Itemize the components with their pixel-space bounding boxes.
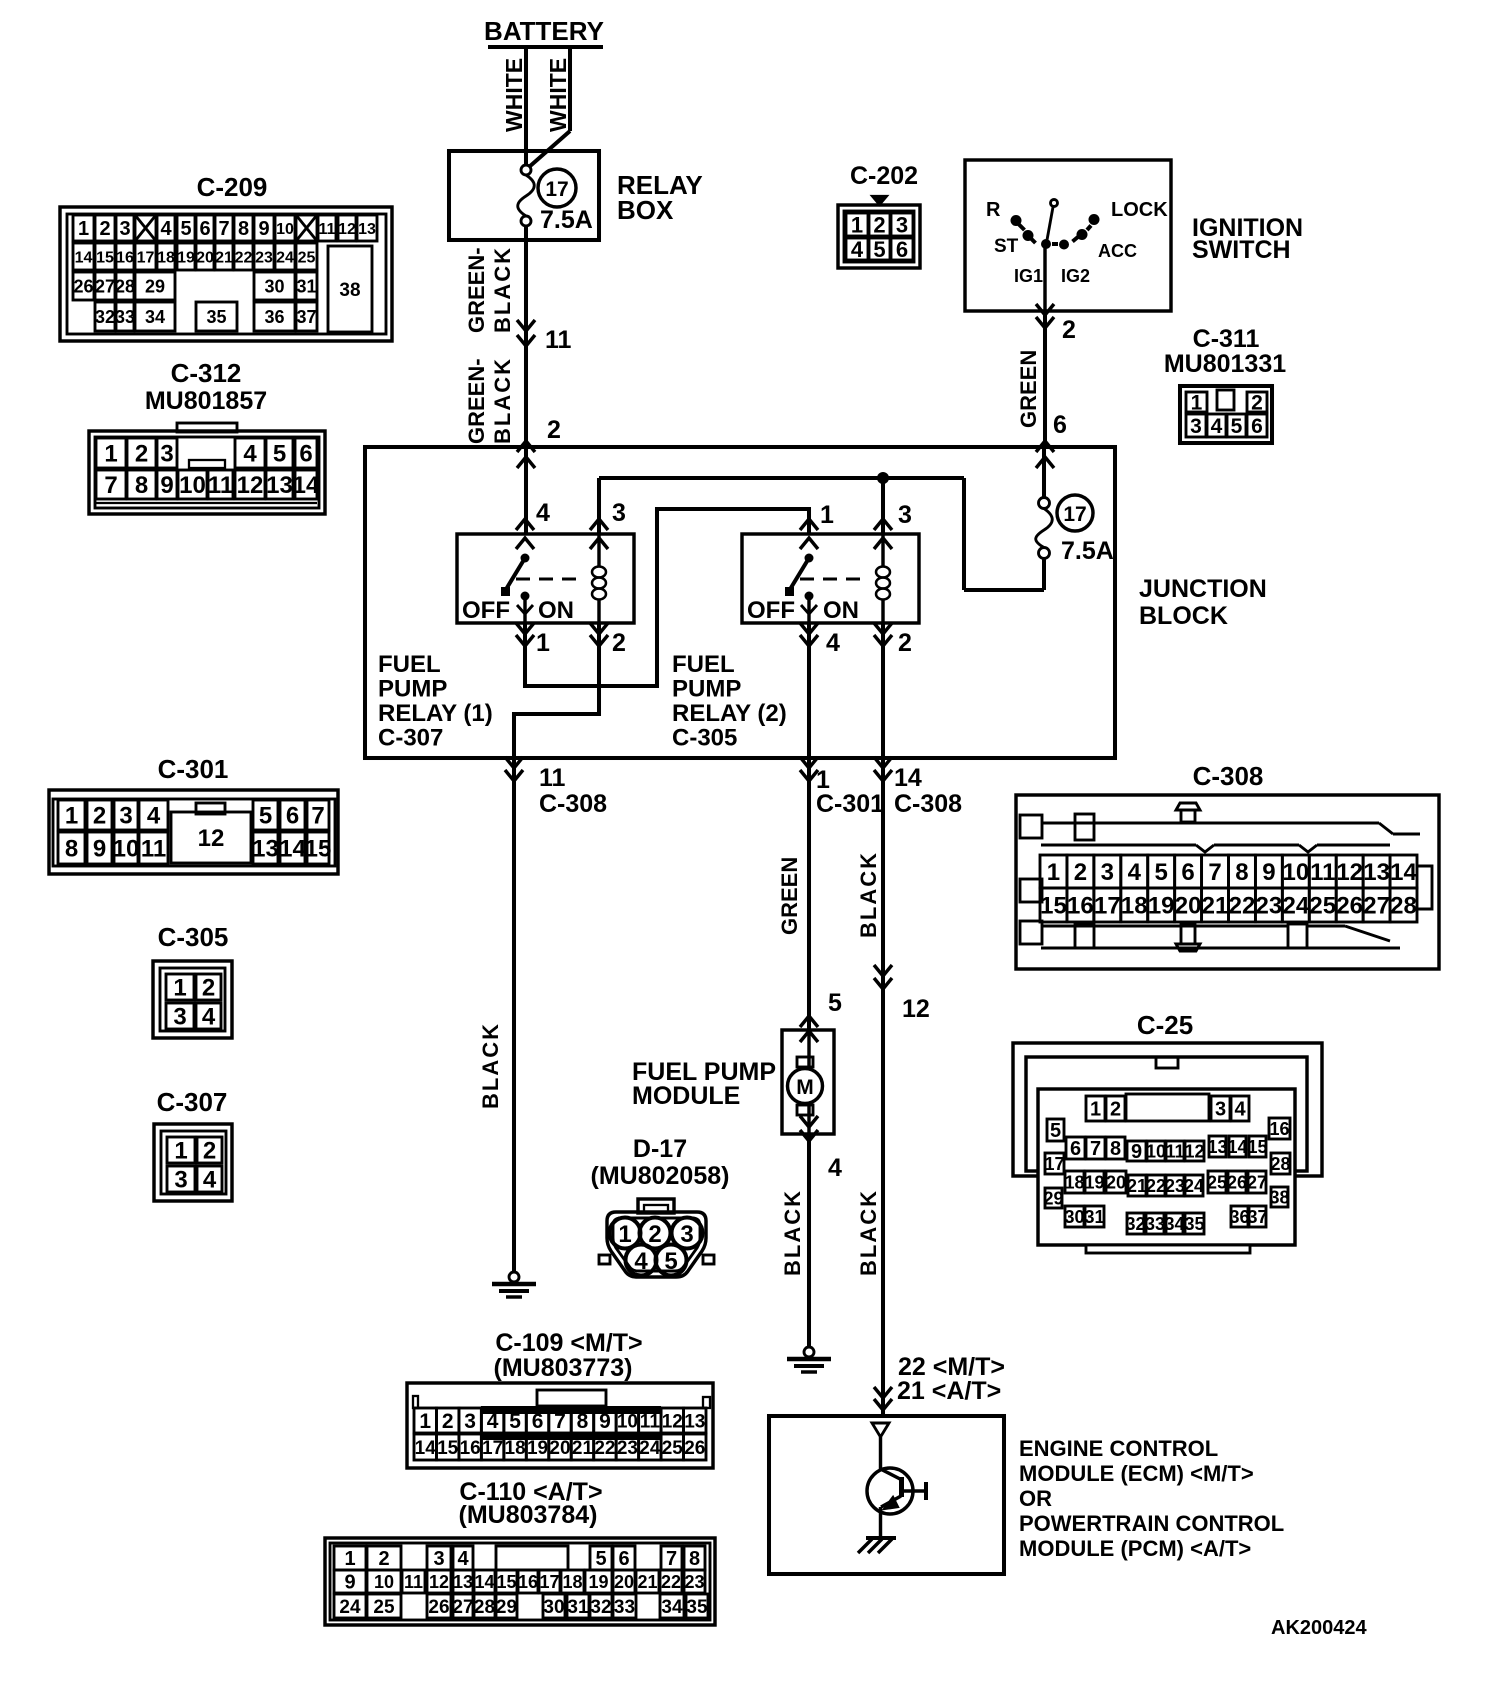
svg-text:8: 8 (689, 1548, 700, 1570)
svg-text:R: R (986, 199, 1001, 221)
svg-text:12: 12 (237, 472, 264, 499)
svg-text:12: 12 (338, 221, 356, 238)
svg-text:2: 2 (378, 1548, 389, 1570)
svg-text:3: 3 (1101, 859, 1114, 886)
svg-text:19: 19 (1084, 1172, 1104, 1192)
svg-text:31: 31 (567, 1597, 589, 1618)
svg-text:2: 2 (202, 975, 215, 1002)
svg-text:7: 7 (218, 218, 229, 240)
svg-text:5: 5 (259, 803, 272, 830)
svg-text:18: 18 (157, 249, 175, 266)
svg-text:4: 4 (457, 1548, 469, 1570)
svg-text:3: 3 (896, 212, 908, 237)
svg-text:13: 13 (266, 472, 293, 499)
svg-text:3: 3 (173, 1004, 186, 1031)
svg-text:C-307: C-307 (157, 1087, 228, 1117)
svg-text:35: 35 (1184, 1214, 1204, 1234)
svg-text:4: 4 (243, 441, 257, 468)
svg-text:FUEL: FUEL (378, 651, 441, 678)
svg-text:13: 13 (1207, 1137, 1227, 1157)
svg-text:8: 8 (1110, 1138, 1121, 1160)
svg-text:4: 4 (487, 1410, 499, 1433)
svg-text:MODULE (PCM) <A/T>: MODULE (PCM) <A/T> (1019, 1536, 1251, 1561)
svg-text:12: 12 (662, 1411, 683, 1432)
svg-text:C-109 <M/T>: C-109 <M/T> (495, 1329, 642, 1357)
svg-text:30: 30 (543, 1597, 564, 1618)
svg-text:3: 3 (612, 499, 626, 527)
svg-text:11: 11 (640, 1411, 661, 1432)
svg-text:18: 18 (1064, 1172, 1084, 1192)
svg-text:BLACK: BLACK (780, 1189, 805, 1276)
svg-text:12: 12 (429, 1572, 449, 1592)
svg-text:FUEL: FUEL (672, 651, 735, 678)
svg-text:29: 29 (145, 276, 165, 296)
svg-text:1: 1 (104, 441, 117, 468)
svg-text:4: 4 (147, 803, 161, 830)
svg-text:1: 1 (173, 975, 186, 1002)
svg-text:JUNCTION: JUNCTION (1139, 575, 1267, 603)
svg-text:C-308: C-308 (1193, 761, 1264, 791)
svg-text:25: 25 (662, 1438, 684, 1459)
svg-text:2: 2 (99, 218, 110, 240)
svg-text:35: 35 (206, 307, 226, 327)
svg-text:7: 7 (666, 1548, 677, 1570)
svg-text:7: 7 (1090, 1138, 1101, 1160)
svg-text:37: 37 (1247, 1207, 1267, 1227)
svg-text:9: 9 (1131, 1141, 1142, 1163)
svg-text:RELAY (2): RELAY (2) (672, 700, 787, 727)
svg-text:9: 9 (160, 472, 173, 499)
svg-text:MODULE: MODULE (632, 1082, 740, 1110)
svg-text:POWERTRAIN CONTROL: POWERTRAIN CONTROL (1019, 1511, 1284, 1536)
svg-text:22: 22 (1229, 893, 1256, 920)
svg-text:C-305: C-305 (158, 922, 229, 952)
svg-text:10: 10 (374, 1572, 394, 1592)
svg-text:3: 3 (1190, 415, 1202, 438)
svg-text:13: 13 (358, 221, 376, 238)
svg-text:BLACK: BLACK (856, 1189, 881, 1276)
svg-text:2: 2 (898, 629, 912, 657)
svg-text:20: 20 (1175, 893, 1202, 920)
svg-text:4: 4 (202, 1004, 216, 1031)
svg-text:11: 11 (1310, 859, 1335, 886)
svg-text:38: 38 (339, 280, 360, 301)
svg-text:28: 28 (1270, 1154, 1290, 1174)
svg-text:6: 6 (896, 237, 908, 262)
svg-text:IG2: IG2 (1061, 266, 1090, 286)
svg-text:C-311: C-311 (1193, 325, 1260, 353)
svg-text:14: 14 (1227, 1137, 1247, 1157)
svg-text:M: M (796, 1076, 814, 1099)
svg-text:27: 27 (1363, 893, 1390, 920)
svg-text:ON: ON (538, 597, 574, 624)
svg-text:17: 17 (1044, 1154, 1064, 1174)
svg-text:32: 32 (95, 307, 115, 327)
svg-text:8: 8 (65, 836, 78, 863)
svg-text:4: 4 (1234, 1099, 1246, 1121)
svg-text:4: 4 (160, 218, 172, 240)
svg-text:ACC: ACC (1098, 241, 1137, 261)
svg-text:5: 5 (1050, 1120, 1061, 1142)
svg-text:C-308: C-308 (894, 790, 962, 818)
svg-text:22: 22 (235, 249, 253, 266)
svg-text:24: 24 (639, 1438, 661, 1459)
svg-text:4: 4 (826, 629, 840, 657)
svg-text:16: 16 (518, 1572, 538, 1592)
svg-text:1: 1 (344, 1548, 355, 1570)
svg-text:16: 16 (1269, 1119, 1289, 1139)
svg-text:3: 3 (174, 1167, 187, 1194)
svg-text:32: 32 (590, 1597, 611, 1618)
svg-text:GREEN: GREEN (777, 857, 802, 935)
svg-text:15: 15 (96, 249, 114, 266)
svg-text:23: 23 (684, 1572, 704, 1592)
svg-text:2: 2 (1110, 1099, 1121, 1121)
svg-text:35: 35 (686, 1597, 708, 1618)
svg-text:26: 26 (684, 1438, 705, 1459)
svg-text:8: 8 (577, 1410, 589, 1433)
svg-text:C-305: C-305 (672, 725, 737, 752)
svg-text:8: 8 (135, 472, 148, 499)
svg-text:17: 17 (137, 249, 155, 266)
svg-text:24: 24 (276, 249, 294, 266)
svg-text:21 <A/T>: 21 <A/T> (897, 1377, 1001, 1405)
svg-text:4: 4 (536, 499, 550, 527)
svg-text:1: 1 (78, 218, 89, 240)
svg-text:2: 2 (1251, 392, 1263, 415)
svg-text:14: 14 (415, 1438, 437, 1459)
svg-text:3: 3 (680, 1221, 693, 1248)
svg-text:19: 19 (588, 1572, 608, 1592)
svg-text:12: 12 (1184, 1141, 1204, 1161)
svg-text:4: 4 (828, 1154, 842, 1182)
svg-text:ST: ST (994, 236, 1019, 257)
svg-text:SWITCH: SWITCH (1192, 236, 1291, 264)
svg-text:D-17: D-17 (633, 1135, 687, 1163)
svg-text:6: 6 (299, 441, 312, 468)
svg-text:ENGINE CONTROL: ENGINE CONTROL (1019, 1436, 1218, 1461)
svg-text:5: 5 (1231, 415, 1243, 438)
svg-text:5: 5 (828, 989, 842, 1017)
svg-text:33: 33 (115, 307, 135, 327)
svg-text:13: 13 (252, 836, 279, 863)
svg-text:2: 2 (203, 1138, 216, 1165)
svg-text:14: 14 (293, 472, 320, 499)
svg-text:22: 22 (594, 1438, 615, 1459)
svg-text:21: 21 (637, 1572, 657, 1592)
svg-text:31: 31 (1084, 1207, 1104, 1227)
svg-text:23: 23 (255, 249, 273, 266)
svg-text:3: 3 (119, 803, 132, 830)
svg-text:14: 14 (279, 836, 306, 863)
svg-text:20: 20 (196, 249, 214, 266)
svg-text:11: 11 (141, 836, 166, 863)
svg-text:23: 23 (1256, 893, 1283, 920)
svg-text:10: 10 (1282, 859, 1309, 886)
svg-text:1: 1 (1191, 392, 1203, 415)
svg-text:13: 13 (453, 1572, 473, 1592)
svg-text:7: 7 (554, 1410, 566, 1433)
svg-text:C-312: C-312 (171, 358, 242, 388)
svg-text:C-202: C-202 (850, 162, 918, 190)
svg-text:9: 9 (93, 836, 106, 863)
svg-text:5: 5 (273, 441, 286, 468)
svg-text:BLACK: BLACK (856, 851, 881, 938)
svg-text:16: 16 (116, 249, 134, 266)
svg-text:7: 7 (311, 803, 324, 830)
svg-text:ON: ON (823, 597, 859, 624)
svg-text:1: 1 (536, 629, 550, 657)
svg-text:PUMP: PUMP (378, 676, 447, 703)
svg-text:(MU803773): (MU803773) (494, 1354, 633, 1382)
svg-text:1: 1 (419, 1410, 431, 1433)
svg-text:OR: OR (1019, 1486, 1052, 1511)
svg-text:37: 37 (296, 307, 316, 327)
svg-text:34: 34 (145, 307, 165, 327)
svg-text:21: 21 (1127, 1176, 1147, 1196)
svg-text:34: 34 (1164, 1214, 1184, 1234)
svg-text:8: 8 (238, 218, 249, 240)
svg-text:9: 9 (344, 1572, 355, 1594)
svg-text:MU801331: MU801331 (1164, 350, 1286, 378)
svg-text:19: 19 (1148, 893, 1175, 920)
svg-text:5: 5 (509, 1410, 521, 1433)
svg-text:25: 25 (1309, 893, 1336, 920)
svg-text:17: 17 (539, 1572, 559, 1592)
svg-text:GREEN-: GREEN- (464, 358, 489, 444)
svg-text:13: 13 (1363, 859, 1390, 886)
svg-text:5: 5 (180, 218, 191, 240)
svg-text:7: 7 (104, 472, 117, 499)
svg-text:19: 19 (177, 249, 195, 266)
svg-text:25: 25 (1207, 1172, 1227, 1192)
svg-text:26: 26 (1227, 1172, 1247, 1192)
svg-text:PUMP: PUMP (672, 676, 741, 703)
svg-text:24: 24 (1184, 1176, 1204, 1196)
svg-text:4: 4 (1211, 415, 1223, 438)
svg-text:4: 4 (634, 1248, 648, 1275)
svg-text:3: 3 (160, 441, 173, 468)
svg-text:10: 10 (276, 221, 294, 238)
svg-text:4: 4 (203, 1167, 217, 1194)
svg-text:11: 11 (1165, 1141, 1184, 1161)
svg-text:17: 17 (545, 178, 568, 201)
svg-text:2: 2 (442, 1410, 454, 1433)
svg-text:25: 25 (373, 1597, 395, 1618)
svg-text:2: 2 (612, 629, 626, 657)
svg-text:11: 11 (539, 764, 566, 792)
svg-text:12: 12 (198, 825, 225, 852)
svg-text:14: 14 (75, 249, 93, 266)
svg-text:6: 6 (532, 1410, 544, 1433)
svg-text:33: 33 (614, 1597, 635, 1618)
svg-text:6: 6 (199, 218, 210, 240)
svg-text:20: 20 (549, 1438, 570, 1459)
svg-text:23: 23 (617, 1438, 638, 1459)
svg-text:26: 26 (1336, 893, 1363, 920)
svg-text:27: 27 (452, 1597, 473, 1618)
svg-text:LOCK: LOCK (1111, 199, 1168, 221)
svg-text:MODULE (ECM) <M/T>: MODULE (ECM) <M/T> (1019, 1461, 1254, 1486)
svg-text:15: 15 (305, 836, 332, 863)
svg-text:10: 10 (617, 1411, 638, 1432)
svg-text:24: 24 (1282, 893, 1309, 920)
svg-text:38: 38 (1269, 1187, 1289, 1207)
svg-text:7.5A: 7.5A (540, 206, 593, 234)
svg-text:34: 34 (661, 1597, 683, 1618)
svg-text:1: 1 (1090, 1099, 1101, 1121)
svg-text:12: 12 (902, 995, 930, 1023)
svg-text:5: 5 (664, 1248, 677, 1275)
svg-text:3: 3 (433, 1548, 444, 1570)
svg-text:6: 6 (1053, 411, 1067, 439)
svg-text:1: 1 (174, 1138, 187, 1165)
svg-text:3: 3 (464, 1410, 476, 1433)
svg-text:1: 1 (851, 212, 863, 237)
svg-text:27: 27 (95, 276, 115, 296)
svg-text:BLACK: BLACK (490, 357, 515, 444)
svg-text:6: 6 (286, 803, 299, 830)
svg-text:2: 2 (93, 803, 106, 830)
svg-text:7: 7 (1208, 859, 1221, 886)
svg-text:27: 27 (1247, 1172, 1267, 1192)
svg-text:28: 28 (115, 276, 135, 296)
svg-text:C-308: C-308 (539, 790, 607, 818)
svg-text:WHITE: WHITE (501, 58, 527, 132)
svg-text:GREEN-: GREEN- (464, 247, 489, 333)
svg-text:28: 28 (1390, 893, 1417, 920)
svg-text:10: 10 (179, 472, 206, 499)
svg-text:OFF: OFF (462, 597, 510, 624)
svg-text:6: 6 (1181, 859, 1194, 886)
svg-text:21: 21 (215, 249, 233, 266)
svg-text:1: 1 (820, 501, 834, 529)
svg-text:33: 33 (1145, 1214, 1165, 1234)
svg-text:9: 9 (1262, 859, 1275, 886)
svg-text:2: 2 (648, 1221, 661, 1248)
svg-text:BOX: BOX (617, 195, 674, 225)
svg-text:1: 1 (618, 1221, 631, 1248)
svg-text:2: 2 (873, 212, 885, 237)
svg-text:GREEN: GREEN (1016, 350, 1041, 428)
svg-text:14: 14 (474, 1572, 494, 1592)
svg-text:C-209: C-209 (197, 172, 268, 202)
svg-text:26: 26 (428, 1597, 449, 1618)
svg-text:15: 15 (437, 1438, 459, 1459)
svg-text:BLACK: BLACK (490, 246, 515, 333)
svg-text:3: 3 (119, 218, 130, 240)
svg-text:31: 31 (296, 276, 316, 296)
svg-text:WHITE: WHITE (545, 58, 571, 132)
svg-text:11: 11 (208, 472, 233, 499)
svg-text:14: 14 (1390, 859, 1417, 886)
svg-text:18: 18 (1121, 893, 1148, 920)
svg-text:2: 2 (547, 416, 561, 444)
svg-text:(MU802058): (MU802058) (591, 1162, 730, 1190)
svg-text:C-301: C-301 (816, 790, 884, 818)
svg-text:10: 10 (113, 836, 140, 863)
svg-text:AK200424: AK200424 (1271, 1617, 1368, 1639)
svg-text:16: 16 (1067, 893, 1094, 920)
svg-text:13: 13 (684, 1411, 705, 1432)
svg-text:36: 36 (264, 307, 284, 327)
svg-text:12: 12 (1336, 859, 1363, 886)
svg-text:7.5A: 7.5A (1061, 537, 1114, 565)
svg-text:29: 29 (1043, 1188, 1063, 1208)
svg-text:BLOCK: BLOCK (1139, 602, 1228, 630)
svg-text:1: 1 (1047, 859, 1060, 886)
svg-text:23: 23 (1165, 1176, 1185, 1196)
svg-text:20: 20 (614, 1572, 634, 1592)
svg-text:OFF: OFF (747, 597, 795, 624)
svg-text:15: 15 (1040, 893, 1067, 920)
svg-text:17: 17 (1094, 893, 1121, 920)
svg-text:25: 25 (298, 249, 316, 266)
svg-text:21: 21 (1202, 893, 1229, 920)
svg-text:26: 26 (73, 276, 93, 296)
svg-text:BATTERY: BATTERY (484, 16, 604, 46)
svg-text:3: 3 (1215, 1099, 1226, 1121)
svg-text:9: 9 (599, 1410, 611, 1433)
svg-text:16: 16 (460, 1438, 481, 1459)
svg-text:22: 22 (661, 1572, 681, 1592)
svg-text:BLACK: BLACK (478, 1022, 503, 1109)
svg-text:32: 32 (1125, 1214, 1145, 1234)
svg-text:2: 2 (1074, 859, 1087, 886)
svg-text:30: 30 (264, 276, 284, 296)
svg-text:C-307: C-307 (378, 725, 443, 752)
svg-text:MU801857: MU801857 (145, 387, 267, 415)
svg-text:C-25: C-25 (1137, 1010, 1193, 1040)
svg-text:19: 19 (527, 1438, 548, 1459)
svg-text:20: 20 (1106, 1172, 1126, 1192)
svg-text:6: 6 (618, 1548, 629, 1570)
svg-text:18: 18 (505, 1438, 526, 1459)
svg-text:IG1: IG1 (1014, 266, 1043, 286)
svg-text:29: 29 (496, 1597, 517, 1618)
svg-text:8: 8 (1235, 859, 1248, 886)
svg-text:1: 1 (65, 803, 78, 830)
svg-text:14: 14 (894, 764, 922, 792)
svg-text:28: 28 (474, 1597, 495, 1618)
svg-text:18: 18 (562, 1572, 582, 1592)
svg-text:C-301: C-301 (158, 754, 229, 784)
svg-text:6: 6 (1251, 415, 1263, 438)
svg-text:11: 11 (404, 1572, 423, 1592)
svg-text:2: 2 (135, 441, 148, 468)
svg-text:11: 11 (545, 326, 572, 354)
svg-text:17: 17 (1063, 503, 1086, 526)
svg-text:15: 15 (1247, 1137, 1267, 1157)
svg-text:9: 9 (258, 218, 269, 240)
svg-text:10: 10 (1146, 1141, 1166, 1161)
svg-text:2: 2 (1062, 316, 1076, 344)
svg-text:4: 4 (1128, 859, 1142, 886)
svg-text:4: 4 (851, 237, 864, 262)
svg-text:(MU803784): (MU803784) (459, 1501, 598, 1529)
svg-text:5: 5 (1154, 859, 1167, 886)
svg-text:30: 30 (1064, 1207, 1084, 1227)
svg-text:15: 15 (496, 1572, 516, 1592)
svg-text:17: 17 (482, 1438, 503, 1459)
svg-text:3: 3 (898, 501, 912, 529)
svg-text:5: 5 (873, 237, 885, 262)
svg-text:5: 5 (595, 1548, 606, 1570)
svg-text:22: 22 (1146, 1176, 1166, 1196)
svg-text:24: 24 (339, 1597, 361, 1618)
svg-text:RELAY (1): RELAY (1) (378, 700, 493, 727)
svg-text:11: 11 (319, 221, 336, 238)
